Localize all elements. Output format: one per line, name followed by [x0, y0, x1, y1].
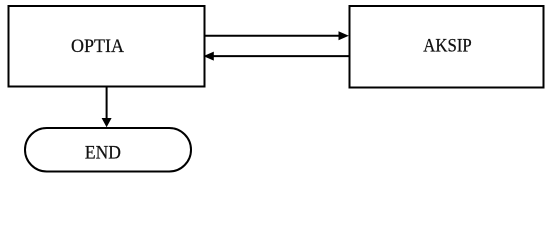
- process box AKSIP: [350, 6, 544, 88]
- wire arrow OPTIA to AKSIP: [206, 31, 349, 40]
- wire arrow OPTIA to END: [102, 87, 112, 127]
- svg-text:AKSIP: AKSIP: [423, 37, 472, 57]
- wire arrow AKSIP to OPTIA: [203, 52, 348, 61]
- svg-text:END: END: [85, 143, 121, 163]
- process box OPTIA: [9, 6, 205, 87]
- svg-text:OPTIA: OPTIA: [71, 37, 125, 57]
- terminator END: [25, 128, 191, 172]
